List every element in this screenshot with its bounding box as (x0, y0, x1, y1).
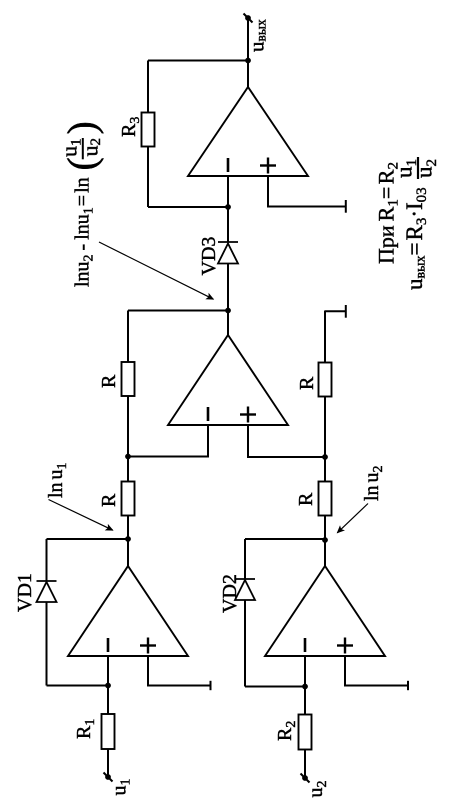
wire U1 output (127, 516, 129, 567)
resistor R1 (102, 714, 115, 749)
terminal u1 (104, 773, 113, 782)
U1 plus label (140, 638, 156, 654)
resistor R3 (142, 113, 155, 147)
node A (125, 454, 131, 460)
node E (245, 58, 251, 64)
wire U3 output to node C (227, 264, 229, 336)
wire chain2 start (324, 516, 326, 541)
wire R2 to U2 inverting input (304, 656, 306, 715)
diode VD1 (37, 581, 57, 602)
wire U2 output (324, 516, 326, 567)
U2 plus label (337, 638, 353, 654)
op-amp U2 (log amp 2) (265, 566, 385, 656)
svg-text:lnu2-lnu1=ln: lnu2-lnu1=ln (72, 177, 97, 287)
U2 minus label (304, 638, 307, 652)
wire VD3 to U4 minus (227, 176, 229, 242)
U4 plus label (260, 158, 276, 174)
arrow formula to node C (99, 242, 213, 299)
resistor R chain1 b (122, 362, 135, 396)
resistor R2 (299, 715, 312, 750)
wire U4 output (247, 18, 249, 87)
wire node A to U3 minus (128, 425, 208, 457)
U4 minus label (227, 158, 230, 172)
svg-text:VD3: VD3 (198, 237, 220, 276)
terminal u out (244, 14, 253, 23)
svg-text:R: R (295, 492, 317, 506)
node J1 (105, 683, 111, 689)
wire chain1 a (127, 396, 129, 482)
terminal u2 (301, 774, 310, 783)
wire node D up (148, 206, 228, 208)
resistor R chain1 a (122, 482, 135, 516)
node J2 (302, 684, 308, 690)
wire VD1 to corner (46, 539, 48, 581)
wire corner down chain2 (325, 310, 346, 312)
U1 minus label (107, 638, 110, 652)
svg-text:R: R (296, 376, 318, 390)
formula uout=R3 I03 u1/u2 (392, 157, 441, 290)
wire J2 up (245, 686, 305, 688)
wire feedback top left U2 (244, 600, 246, 687)
node D (225, 204, 231, 210)
wire u2 to R2 (304, 750, 306, 779)
wire R3 left (147, 147, 149, 208)
wire u1 to R1 (107, 749, 109, 777)
ground bar U2 (407, 681, 409, 690)
svg-text:VD1: VD1 (14, 573, 36, 612)
svg-text:R: R (98, 493, 120, 507)
arrow ln u1 (49, 500, 113, 531)
wire node B to U3 plus (248, 425, 325, 457)
op-amp U4 (output amp) (188, 87, 308, 176)
U3 minus label (207, 407, 210, 421)
node C (225, 308, 231, 314)
svg-text:VD2: VD2 (219, 574, 241, 613)
resistor R chain2 b (319, 363, 332, 397)
svg-text:(: ( (59, 157, 104, 170)
ground wire U4 plus (268, 176, 346, 207)
wire J1 up (47, 685, 109, 687)
diode VD3 (218, 242, 238, 264)
wire R3 down to output node (148, 60, 248, 62)
ground bar chain2 (345, 305, 347, 318)
wire R1 to U1 inverting input (107, 656, 109, 714)
op-amp U3 (difference amp) (168, 335, 288, 425)
ground bar U1 (210, 681, 212, 690)
diode VD2 (235, 579, 255, 600)
wire chain1 b to corner (127, 311, 129, 363)
op-amp U1 (log amp 1) (68, 566, 188, 656)
wire feedback top left (46, 602, 48, 686)
U3 plus label (240, 407, 256, 423)
resistor R chain2 a (319, 482, 332, 516)
wire VD2 to corner (244, 539, 246, 579)
node lnu1 (125, 536, 131, 542)
wire R3 right (147, 61, 149, 113)
svg-text:R: R (98, 374, 120, 388)
wire corner down to node lnu1 (47, 538, 129, 540)
node B (322, 454, 328, 460)
ground wire U1 plus (148, 656, 211, 686)
formula lnu2-lnu1 (57, 121, 105, 287)
ground wire U2 plus (345, 656, 408, 686)
node lnu2 (322, 537, 328, 543)
wire corner down to node lnu2 (245, 538, 325, 540)
wire chain2 a (324, 397, 326, 482)
wire chain2 b to corner (324, 311, 326, 363)
ground bar U4 (345, 200, 347, 213)
arrow ln u2 (337, 504, 368, 533)
svg-text:): ) (59, 121, 104, 134)
wire corner down to node C (128, 310, 228, 312)
